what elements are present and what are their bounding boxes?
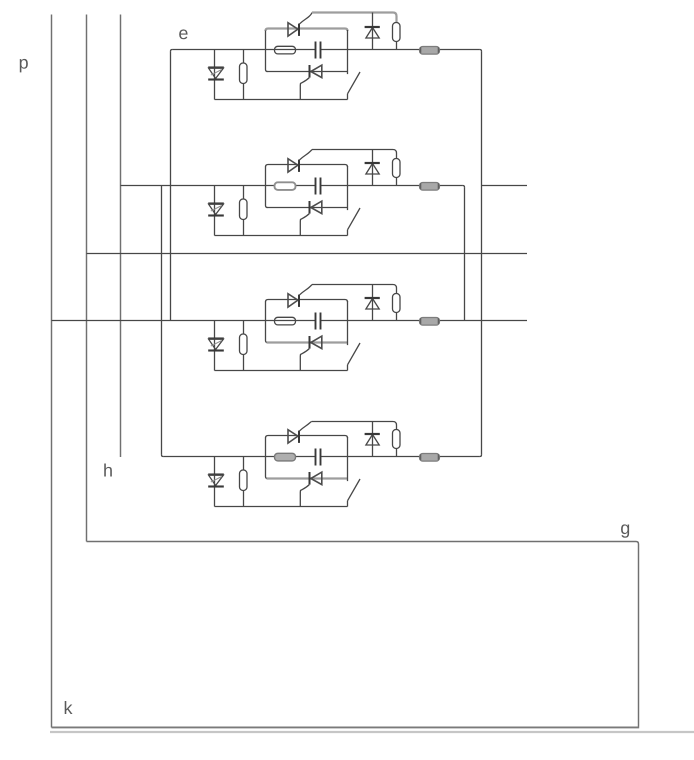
diode D1b (up) bbox=[366, 28, 379, 39]
wire: D3b branch bbox=[372, 285, 374, 321]
wire: R3b lower lead bbox=[396, 313, 398, 321]
thyristor T4a bbox=[288, 430, 298, 443]
node p label bbox=[20, 59, 28, 72]
wire: D3a branch bbox=[214, 321, 216, 371]
wire: SM2 main line left segment bbox=[121, 185, 316, 187]
capacitor C2 bbox=[315, 178, 317, 195]
wire: R4a branch bbox=[243, 457, 245, 471]
diode D1a (down) bbox=[208, 66, 224, 68]
switch S4 bbox=[347, 501, 349, 507]
resistor R2b bbox=[393, 159, 401, 178]
wire: R1b lower lead bbox=[396, 42, 398, 50]
resistor R3a bbox=[240, 334, 248, 355]
wire: D4b branch bbox=[372, 422, 374, 457]
snubber box outline SM4 bbox=[266, 436, 348, 439]
switch S1 bbox=[347, 94, 349, 100]
wire: T1b gate lead bbox=[300, 78, 309, 100]
capacitor C4 bbox=[315, 449, 317, 466]
wire: right bus SM2 to SM3 bbox=[464, 187, 466, 320]
wire: SM4 left corner bbox=[162, 455, 164, 457]
left bus 2 (to g) bbox=[86, 15, 88, 542]
wire: right bus bottom corner bbox=[480, 455, 482, 457]
wire: SM4 top wire bbox=[312, 422, 397, 430]
wire: T1a gate lead bbox=[299, 13, 312, 25]
resistor R2a bbox=[240, 199, 248, 220]
thyristor T1b bbox=[311, 65, 322, 78]
diode D2a (down) bbox=[208, 202, 224, 204]
resistor R4b bbox=[393, 430, 401, 449]
wire: bottom return to k bbox=[52, 726, 640, 728]
left bus p bbox=[51, 15, 53, 728]
fuse F2 bbox=[420, 183, 440, 191]
thyristor T4b bbox=[311, 472, 322, 485]
diode D3b (up) bbox=[366, 299, 379, 310]
wire: SM2 gate/switch lower line bbox=[215, 235, 348, 237]
wire: R2b lower lead bbox=[396, 178, 398, 186]
resistor R3b bbox=[393, 294, 401, 313]
wire: D1b branch bbox=[372, 13, 374, 50]
wire: SM3 main line right segment bbox=[321, 320, 528, 322]
diode D3a (down) bbox=[208, 337, 224, 339]
node h label bbox=[104, 463, 112, 476]
wire: SM1 main-line left corner bbox=[171, 50, 173, 52]
capacitor C1 bbox=[315, 42, 317, 59]
wire: D2a branch bbox=[214, 186, 216, 236]
wire: R2a branch bbox=[243, 186, 245, 200]
wire: SM1 gate/switch lower line bbox=[215, 99, 348, 101]
diode D4b (up) bbox=[366, 435, 379, 446]
wire: SM3 gate/switch lower line bbox=[215, 370, 348, 372]
wire: R3a branch bbox=[243, 321, 245, 335]
node k label bbox=[65, 701, 73, 714]
wire: SM1 main-line right corner bbox=[480, 50, 482, 52]
resistor Rd4 (in box, on main line) bbox=[275, 453, 296, 461]
fuse F1 bbox=[420, 47, 440, 55]
wire: R1a branch bbox=[243, 50, 245, 64]
snubber box outline SM1 bbox=[266, 29, 348, 32]
thyristor T2b bbox=[311, 201, 322, 214]
terminal lead h bbox=[120, 15, 122, 458]
wire: SM4 gate/switch lower line bbox=[215, 506, 348, 508]
diode D4a (down) bbox=[208, 473, 224, 475]
resistor R1b bbox=[393, 23, 401, 42]
wire: stub right of bus at SM2 level bbox=[482, 185, 528, 187]
wire: SM3 top wire bbox=[312, 285, 397, 294]
thyristor T1a bbox=[288, 23, 298, 36]
wire: SM2 right corner down bbox=[463, 186, 465, 188]
wire: right bus SM1 to SM4 bbox=[481, 51, 483, 455]
wire: D1a branch bbox=[214, 50, 216, 100]
resistor R4a bbox=[240, 470, 248, 491]
capacitor C3 bbox=[315, 313, 317, 330]
wire: SM4 main line left segment bbox=[163, 456, 315, 458]
fuse F3 bbox=[420, 318, 440, 326]
resistor R1a bbox=[240, 63, 248, 84]
wire: D4a branch bbox=[214, 457, 216, 507]
wire: T2a gate lead bbox=[299, 150, 312, 161]
node e label bbox=[179, 29, 187, 39]
snubber box outline SM2 bbox=[266, 165, 348, 168]
resistor Rd2 (in box, on main line) bbox=[275, 182, 296, 190]
fuse F4 bbox=[420, 454, 440, 462]
switch S3 bbox=[347, 365, 349, 371]
snubber box outline SM3 bbox=[266, 300, 348, 303]
wire: SM4 main line right segment bbox=[321, 456, 480, 458]
resistor Rd1 (in box, on main line) bbox=[275, 46, 296, 54]
wire: T4b gate lead bbox=[300, 485, 309, 507]
diode D2b (up) bbox=[366, 164, 379, 175]
wire: T2b gate lead bbox=[300, 214, 309, 236]
wire: SM1 top wire bbox=[312, 13, 397, 23]
wire: D2b branch bbox=[372, 150, 374, 186]
wire: SM1 left terminal down to SM3 line bbox=[170, 51, 172, 320]
wire: g line bbox=[87, 542, 639, 727]
thyristor T3a bbox=[288, 294, 298, 307]
wire: R4b lower lead bbox=[396, 449, 398, 457]
thyristor T3b bbox=[311, 336, 322, 349]
wire: mid horizontal line bbox=[87, 253, 528, 255]
wire: T3b gate lead bbox=[300, 349, 309, 371]
scan artifact gray band bbox=[50, 731, 694, 733]
wire: T4a gate lead bbox=[299, 421, 312, 431]
wire: T3a gate lead bbox=[299, 285, 312, 296]
thyristor T2a bbox=[288, 159, 298, 172]
wire: SM2 top wire bbox=[312, 150, 397, 159]
switch S2 bbox=[347, 230, 349, 236]
wire: SM2 main line right segment bbox=[321, 185, 463, 187]
wire: SM1 main line left segment bbox=[172, 49, 315, 51]
wire: SM3 main line left segment bbox=[52, 320, 316, 322]
wire: SM2 left terminal down to SM4 line bbox=[161, 186, 163, 455]
resistor Rd3 (in box, on main line) bbox=[275, 317, 296, 325]
wire: SM1 main line right segment bbox=[321, 49, 480, 51]
node g label bbox=[621, 524, 629, 537]
